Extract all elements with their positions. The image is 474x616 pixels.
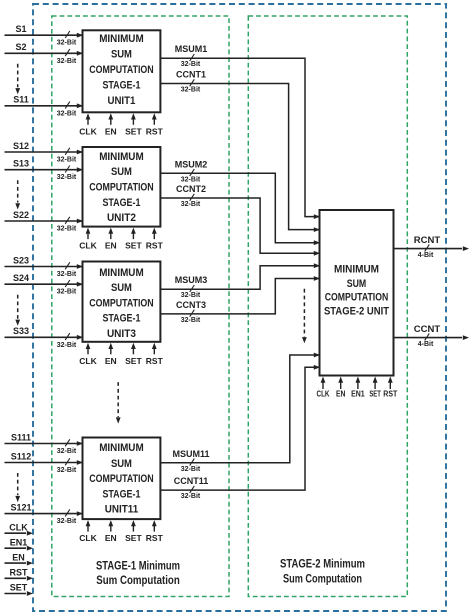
svg-text:4-Bit: 4-Bit bbox=[418, 341, 434, 348]
svg-text:S11: S11 bbox=[13, 95, 29, 105]
bus width 32-Bit (S23) bbox=[65, 262, 70, 269]
svg-text:EN: EN bbox=[336, 390, 346, 399]
svg-text:S13: S13 bbox=[13, 159, 29, 169]
svg-text:SET: SET bbox=[125, 533, 142, 543]
svg-text:Sum Computation: Sum Computation bbox=[96, 573, 180, 587]
svg-text:MINIMUM: MINIMUM bbox=[99, 33, 144, 45]
wire S112 bbox=[5, 462, 82, 464]
svg-text:SUM: SUM bbox=[111, 458, 132, 470]
ellipsis arrow (inputs S112..S121) bbox=[17, 473, 19, 495]
bus width 32-Bit (CCNT3) bbox=[190, 310, 195, 317]
ellipsis arrow (UNIT3..UNIT11) bbox=[117, 382, 119, 417]
bus width 32-Bit (S1) bbox=[65, 31, 70, 38]
bus width 32-Bit (S111) bbox=[65, 439, 70, 446]
svg-text:SET: SET bbox=[125, 241, 142, 251]
pin RST (STAGE-2 UNIT) bbox=[389, 382, 391, 390]
pin EN (STAGE-2 UNIT) bbox=[340, 382, 342, 390]
svg-text:MSUM3: MSUM3 bbox=[175, 275, 208, 285]
pin RST (UNIT2) bbox=[153, 233, 155, 240]
wire RCNT output bbox=[394, 248, 463, 250]
wire CCNT2 bbox=[160, 198, 318, 253]
svg-text:RST: RST bbox=[10, 568, 29, 578]
pin EN (UNIT11) bbox=[110, 525, 112, 532]
bus width 32-Bit (S13) bbox=[65, 166, 70, 173]
svg-text:S121: S121 bbox=[10, 502, 31, 512]
pin EN (UNIT3) bbox=[110, 348, 112, 355]
minimum sum computation stage-1 unit3 block bbox=[83, 262, 161, 342]
svg-text:CLK: CLK bbox=[79, 241, 97, 251]
svg-text:CLK: CLK bbox=[79, 356, 97, 366]
svg-text:RST: RST bbox=[383, 390, 397, 399]
wire MSUM1 bbox=[160, 58, 318, 216]
svg-text:CCNT1: CCNT1 bbox=[176, 70, 206, 80]
STAGE-1 dashed boundary bbox=[52, 16, 229, 597]
bus width 32-Bit (S2) bbox=[65, 49, 70, 56]
svg-text:32-Bit: 32-Bit bbox=[181, 466, 201, 473]
wire SET control input bbox=[5, 593, 27, 595]
wire S33 bbox=[5, 336, 82, 338]
svg-text:32-Bit: 32-Bit bbox=[57, 518, 77, 525]
svg-text:STAGE-1: STAGE-1 bbox=[102, 197, 140, 209]
pin SET (STAGE-2 UNIT) bbox=[374, 382, 376, 390]
svg-text:CCNT3: CCNT3 bbox=[176, 300, 206, 310]
svg-text:S12: S12 bbox=[13, 141, 29, 151]
svg-text:COMPUTATION: COMPUTATION bbox=[89, 297, 154, 309]
wire EN control input bbox=[5, 562, 27, 564]
wire S2 bbox=[5, 52, 82, 54]
wire S13 bbox=[5, 169, 82, 171]
svg-text:S111: S111 bbox=[11, 432, 31, 442]
pin EN (UNIT1) bbox=[110, 118, 112, 125]
svg-text:RST: RST bbox=[146, 356, 164, 366]
wire S22 bbox=[5, 220, 82, 222]
svg-text:EN1: EN1 bbox=[351, 390, 365, 399]
svg-text:SUM: SUM bbox=[111, 49, 132, 61]
pin SET (UNIT1) bbox=[132, 118, 134, 125]
wire CCNT1 bbox=[160, 84, 318, 230]
svg-text:STAGE-1: STAGE-1 bbox=[102, 313, 140, 325]
svg-text:S33: S33 bbox=[13, 326, 29, 336]
svg-text:EN: EN bbox=[12, 552, 25, 562]
wire S1 bbox=[5, 34, 82, 36]
svg-text:MINIMUM: MINIMUM bbox=[99, 151, 144, 163]
svg-text:S112: S112 bbox=[11, 451, 32, 461]
pin RST (UNIT1) bbox=[153, 118, 155, 125]
svg-text:SET: SET bbox=[369, 390, 381, 399]
svg-text:STAGE-2 Minimum: STAGE-2 Minimum bbox=[280, 557, 365, 571]
minimum sum computation stage-1 unit2 block bbox=[83, 147, 161, 227]
svg-text:S2: S2 bbox=[15, 42, 26, 52]
ellipsis arrow (inputs S2..S11) bbox=[17, 64, 19, 88]
bus width 32-Bit (S11) bbox=[65, 102, 70, 109]
wire S23 bbox=[5, 266, 82, 268]
svg-text:CLK: CLK bbox=[317, 390, 330, 399]
svg-text:32-Bit: 32-Bit bbox=[57, 226, 77, 233]
bus width 32-Bit (MSUM2) bbox=[190, 169, 195, 176]
svg-text:SUM: SUM bbox=[111, 166, 132, 178]
svg-text:MINIMUM: MINIMUM bbox=[99, 442, 144, 454]
ellipsis arrow (inputs S24..S33) bbox=[17, 295, 19, 319]
wire CCNT output bbox=[394, 337, 463, 339]
pin SET (UNIT11) bbox=[132, 525, 134, 532]
svg-text:SET: SET bbox=[125, 126, 142, 136]
svg-text:COMPUTATION: COMPUTATION bbox=[325, 292, 389, 304]
pin SET (UNIT3) bbox=[132, 348, 134, 355]
svg-text:UNIT3: UNIT3 bbox=[107, 328, 136, 340]
bus width 32-Bit (S22) bbox=[65, 217, 70, 224]
svg-text:MSUM2: MSUM2 bbox=[175, 159, 208, 169]
svg-text:EN: EN bbox=[105, 533, 117, 543]
svg-text:CLK: CLK bbox=[79, 126, 97, 136]
svg-text:MSUM1: MSUM1 bbox=[175, 44, 208, 54]
svg-text:EN1: EN1 bbox=[10, 537, 28, 547]
pin EN (UNIT2) bbox=[110, 233, 112, 240]
svg-text:32-Bit: 32-Bit bbox=[57, 40, 77, 47]
svg-text:Sum Computation: Sum Computation bbox=[283, 571, 362, 585]
wire S111 bbox=[5, 443, 82, 445]
minimum sum computation stage-1 unit11 block bbox=[83, 438, 161, 520]
svg-text:CCNT11: CCNT11 bbox=[174, 476, 209, 486]
bus width 32-Bit (CCNT11) bbox=[190, 486, 195, 493]
bus width 4-Bit (RCNT) bbox=[425, 244, 430, 251]
pin SET (UNIT2) bbox=[132, 233, 134, 240]
svg-text:STAGE-1: STAGE-1 bbox=[102, 80, 140, 92]
svg-text:UNIT11: UNIT11 bbox=[105, 503, 139, 515]
svg-text:SET: SET bbox=[10, 583, 28, 593]
svg-text:EN: EN bbox=[105, 356, 117, 366]
svg-text:SET: SET bbox=[125, 356, 142, 366]
ellipsis arrow (stage-2 inputs) bbox=[303, 289, 305, 337]
svg-text:32-Bit: 32-Bit bbox=[57, 174, 77, 181]
svg-text:RCNT: RCNT bbox=[414, 235, 441, 246]
svg-text:SUM: SUM bbox=[347, 278, 367, 290]
svg-text:COMPUTATION: COMPUTATION bbox=[89, 182, 154, 194]
wire RST control input bbox=[5, 577, 27, 579]
svg-text:S1: S1 bbox=[15, 24, 26, 34]
svg-text:32-Bit: 32-Bit bbox=[181, 176, 201, 183]
svg-text:S23: S23 bbox=[13, 255, 29, 265]
svg-text:32-Bit: 32-Bit bbox=[181, 61, 201, 68]
svg-text:32-Bit: 32-Bit bbox=[57, 448, 77, 455]
wire CLK control input bbox=[5, 532, 27, 534]
svg-text:RST: RST bbox=[146, 533, 164, 543]
bus width 32-Bit (S24) bbox=[65, 280, 70, 287]
svg-text:32-Bit: 32-Bit bbox=[57, 289, 77, 296]
svg-text:MINIMUM: MINIMUM bbox=[334, 263, 379, 275]
svg-text:CLK: CLK bbox=[79, 533, 97, 543]
ellipsis arrow (inputs S13..S22) bbox=[17, 180, 19, 202]
pin RST (UNIT3) bbox=[153, 348, 155, 355]
svg-text:32-Bit: 32-Bit bbox=[181, 317, 201, 324]
bus width 32-Bit (CCNT1) bbox=[190, 79, 195, 86]
wire MSUM2 bbox=[160, 173, 318, 242]
svg-text:STAGE-2 UNIT: STAGE-2 UNIT bbox=[324, 306, 389, 318]
svg-text:COMPUTATION: COMPUTATION bbox=[89, 473, 154, 485]
bus width 32-Bit (CCNT2) bbox=[190, 194, 195, 201]
svg-text:RST: RST bbox=[146, 241, 164, 251]
svg-text:4-Bit: 4-Bit bbox=[418, 252, 434, 259]
svg-text:32-Bit: 32-Bit bbox=[57, 58, 77, 65]
svg-text:UNIT2: UNIT2 bbox=[107, 212, 136, 224]
pin CLK (UNIT3) bbox=[87, 348, 89, 355]
svg-text:32-Bit: 32-Bit bbox=[181, 87, 201, 94]
bus width 32-Bit (S12) bbox=[65, 148, 70, 155]
bus width 32-Bit (S33) bbox=[65, 333, 70, 340]
bus width 32-Bit (MSUM11) bbox=[190, 459, 195, 466]
svg-text:S22: S22 bbox=[13, 210, 29, 220]
svg-text:32-Bit: 32-Bit bbox=[57, 271, 77, 278]
svg-text:32-Bit: 32-Bit bbox=[57, 342, 77, 349]
minimum sum computation stage-1 unit1 block bbox=[83, 30, 161, 112]
STAGE-2 dashed boundary bbox=[248, 16, 407, 597]
wire EN1 control input bbox=[5, 547, 27, 549]
wire MSUM11 bbox=[160, 355, 318, 463]
wire CCNT11 bbox=[160, 367, 318, 490]
svg-text:STAGE-1 Minimum: STAGE-1 Minimum bbox=[96, 559, 180, 573]
wire S24 bbox=[5, 283, 82, 285]
wire S11 bbox=[5, 105, 82, 107]
svg-text:32-Bit: 32-Bit bbox=[181, 493, 201, 500]
svg-text:CLK: CLK bbox=[9, 522, 28, 532]
bus width 32-Bit (S112) bbox=[65, 458, 70, 465]
minimum sum computation stage-2 unit block bbox=[320, 210, 394, 376]
svg-text:32-Bit: 32-Bit bbox=[57, 110, 77, 117]
svg-text:32-Bit: 32-Bit bbox=[181, 201, 201, 208]
wire S121 bbox=[5, 513, 82, 515]
pin EN1 (STAGE-2 UNIT) bbox=[357, 382, 359, 390]
svg-text:32-Bit: 32-Bit bbox=[181, 292, 201, 299]
bus width 4-Bit (CCNT) bbox=[425, 333, 430, 340]
bus width 32-Bit (MSUM3) bbox=[190, 285, 195, 292]
pin CLK (STAGE-2 UNIT) bbox=[322, 382, 324, 390]
svg-text:CCNT: CCNT bbox=[414, 324, 441, 335]
svg-text:UNIT1: UNIT1 bbox=[107, 95, 135, 107]
svg-text:RST: RST bbox=[146, 126, 164, 136]
wire CCNT3 bbox=[160, 279, 318, 314]
svg-text:32-Bit: 32-Bit bbox=[57, 157, 77, 164]
pin RST (UNIT11) bbox=[153, 525, 155, 532]
wire MSUM3 bbox=[160, 266, 318, 290]
svg-text:S24: S24 bbox=[13, 273, 29, 283]
svg-text:EN: EN bbox=[105, 241, 117, 251]
svg-text:CCNT2: CCNT2 bbox=[176, 184, 206, 194]
svg-text:STAGE-1: STAGE-1 bbox=[102, 488, 140, 500]
bus width 32-Bit (S121) bbox=[65, 509, 70, 516]
svg-text:32-Bit: 32-Bit bbox=[57, 467, 77, 474]
svg-text:COMPUTATION: COMPUTATION bbox=[89, 64, 154, 76]
svg-text:MINIMUM: MINIMUM bbox=[99, 267, 144, 279]
pin CLK (UNIT2) bbox=[87, 233, 89, 240]
bus width 32-Bit (MSUM1) bbox=[190, 54, 195, 61]
svg-text:EN: EN bbox=[105, 126, 117, 136]
wire S12 bbox=[5, 151, 82, 153]
svg-text:MSUM11: MSUM11 bbox=[172, 449, 209, 459]
pin CLK (UNIT11) bbox=[87, 525, 89, 532]
pin CLK (UNIT1) bbox=[87, 118, 89, 125]
svg-text:SUM: SUM bbox=[111, 282, 132, 294]
